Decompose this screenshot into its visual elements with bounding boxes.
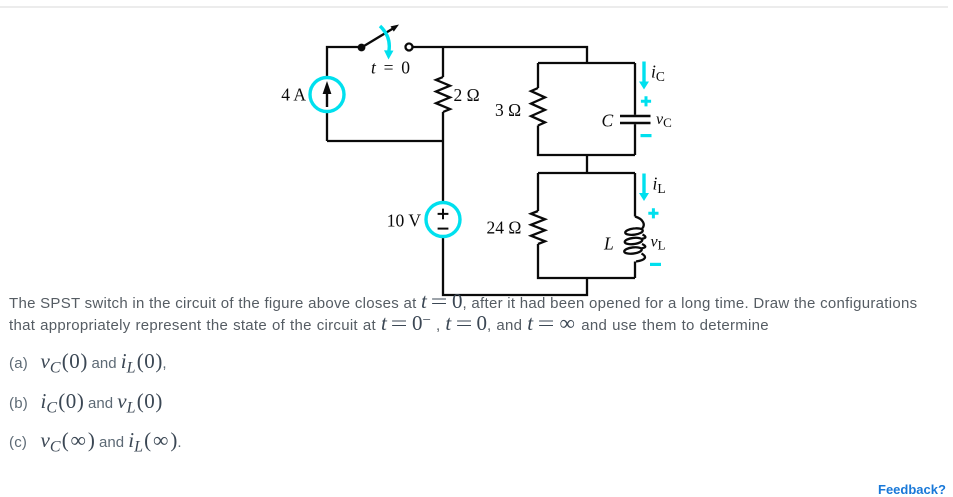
switch SW1 pole dot <box>358 44 366 52</box>
switch SW1 arm <box>362 29 394 48</box>
svg-text:vC: vC <box>656 111 672 130</box>
inductor plus sign cyan <box>648 208 658 218</box>
current source I1 4A circle <box>310 78 344 112</box>
wire: box2 left lower <box>538 244 635 278</box>
inductor minus sign cyan <box>650 263 661 266</box>
box2 left edge upper wire <box>537 173 539 211</box>
switch closing cyan arrow <box>380 26 389 52</box>
voltage source V1 minus sign <box>438 228 449 230</box>
item (b) <box>9 395 162 412</box>
svg-text:24 Ω: 24 Ω <box>487 218 522 238</box>
capacitor minus sign cyan <box>641 134 652 137</box>
wire: 2 ohm branch top <box>442 47 444 77</box>
switch SW1 arm arrowhead <box>391 25 400 32</box>
resistor R1 2ohm zigzag <box>436 77 450 112</box>
item (c) <box>9 434 182 451</box>
capacitor C1 plates <box>620 116 651 123</box>
svg-text:3 Ω: 3 Ω <box>495 100 521 120</box>
wire: 4A branch top <box>327 47 358 141</box>
voltage source V1 plus sign <box>438 209 449 220</box>
item (a) <box>9 355 167 372</box>
svg-text:10 V: 10 V <box>387 211 422 231</box>
wire: inductor to box2 bottom <box>634 262 636 279</box>
wire: 2ohm to 10V source <box>442 112 444 203</box>
box2 top edge wire <box>538 172 635 174</box>
wire: box1 right upper to capacitor <box>634 63 636 115</box>
wire: box2 right upper to inductor <box>634 173 636 217</box>
svg-text:t = 0: t = 0 <box>371 58 410 78</box>
resistor R2 3ohm zigzag <box>531 88 545 126</box>
wire: 10V source to bottom rail <box>443 237 587 296</box>
wire: top rail to box1 <box>413 47 587 63</box>
iC cyan arrow <box>642 62 645 83</box>
svg-text:iL: iL <box>653 174 666 197</box>
problem statement paragraph <box>9 293 953 337</box>
svg-text:C: C <box>602 111 614 131</box>
capacitor plus sign cyan <box>641 96 651 106</box>
switch SW1 open terminal <box>406 44 413 51</box>
resistor R3 24ohm zigzag <box>531 211 545 244</box>
wire: capacitor to box1 bottom <box>634 124 636 155</box>
svg-text:2 Ω: 2 Ω <box>454 85 480 105</box>
wire: left loop bottom rail <box>327 140 443 142</box>
wire: box1 to box2 stub <box>586 155 588 173</box>
current source I1 arrow <box>326 92 328 107</box>
svg-text:L: L <box>603 234 614 254</box>
feedback link <box>878 482 946 497</box>
wire: box1 left lower <box>538 126 635 156</box>
svg-text:vL: vL <box>651 234 666 253</box>
voltage source V1 10V circle <box>426 203 460 237</box>
inductor L1 coil <box>635 217 645 262</box>
box1 left edge wire <box>537 63 539 88</box>
box1 top edge wire <box>538 62 635 64</box>
iL cyan arrow <box>642 174 645 194</box>
svg-text:iC: iC <box>651 62 665 85</box>
svg-text:4 A: 4 A <box>281 85 306 105</box>
top divider line <box>0 6 948 9</box>
